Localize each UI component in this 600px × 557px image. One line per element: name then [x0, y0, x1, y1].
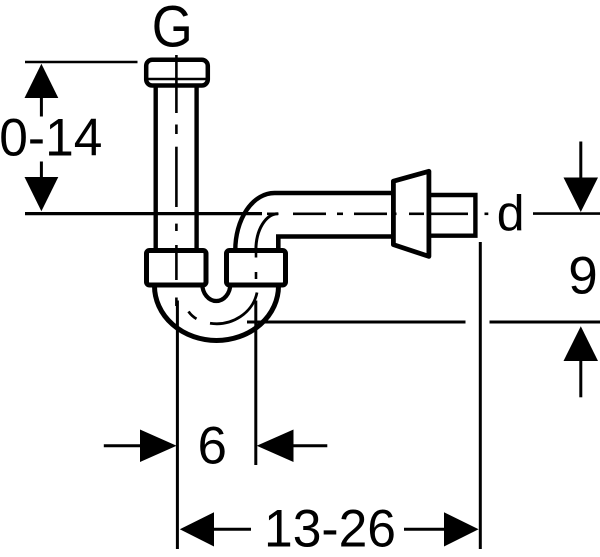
extension line right (pipe end): [479, 242, 482, 549]
svg-text:6: 6: [198, 417, 227, 476]
dimension 0-14 down arrowhead: [25, 177, 59, 211]
dimension 6 left shaft: [104, 444, 141, 447]
trap U-bend outer: [155, 286, 279, 340]
svg-text:G: G: [152, 0, 193, 60]
svg-text:0-14: 0-14: [0, 109, 102, 168]
bottom reference line (pipe axis level): [25, 212, 262, 215]
outlet pipe bottom edge with step: [278, 237, 391, 251]
dimension 9 down arrowhead: [564, 178, 599, 213]
inlet pipe right wall: [194, 86, 198, 251]
right slip nut: [227, 251, 286, 286]
dimension 13-26 left arrowhead: [180, 512, 214, 546]
lower reference line: [247, 321, 466, 324]
outlet pipe right section: [429, 195, 475, 236]
svg-text:d: d: [497, 186, 525, 242]
svg-text:13-26: 13-26: [264, 500, 396, 557]
extension line left (pipe axis): [176, 301, 179, 550]
d reference line: [533, 212, 600, 215]
dip tube bottom: [202, 284, 230, 301]
dimension 13-26 right shaft: [404, 528, 444, 531]
elbow leg centerline in right nut: [255, 250, 258, 279]
dimension 0-14 down shaft: [40, 162, 43, 179]
inlet pipe left wall: [153, 86, 157, 251]
inlet pipe flange: [146, 60, 208, 86]
trap inner hint dash left: [189, 312, 197, 319]
trap inner wall arc right: [210, 293, 257, 324]
elbow inner arc: [256, 214, 278, 250]
dimension 9 up arrowhead: [564, 326, 599, 361]
inlet pipe centerline: [175, 55, 178, 306]
dimension 0-14 up arrowhead: [25, 64, 59, 98]
dimension 9 up shaft: [579, 360, 582, 397]
svg-text:9: 9: [568, 247, 597, 306]
top reference line (flange top level): [25, 61, 138, 64]
outlet cone flange: [393, 171, 429, 256]
dimension 9 down shaft: [579, 142, 582, 179]
elbow outer arc and outlet pipe top edge: [235, 193, 391, 250]
outlet pipe centerline: [267, 213, 488, 216]
dimension 13-26 left shaft: [213, 528, 251, 531]
dimension 6 right arrowhead: [257, 430, 294, 463]
dimension 6 left arrowhead: [140, 430, 177, 463]
dimension 6 right shaft: [293, 444, 328, 447]
flange inner line: [147, 78, 207, 80]
extension line middle (elbow axis): [254, 301, 257, 466]
dimension 0-14 up shaft: [40, 97, 43, 117]
left slip nut: [147, 251, 207, 286]
dimension 13-26 right arrowhead: [444, 512, 479, 546]
